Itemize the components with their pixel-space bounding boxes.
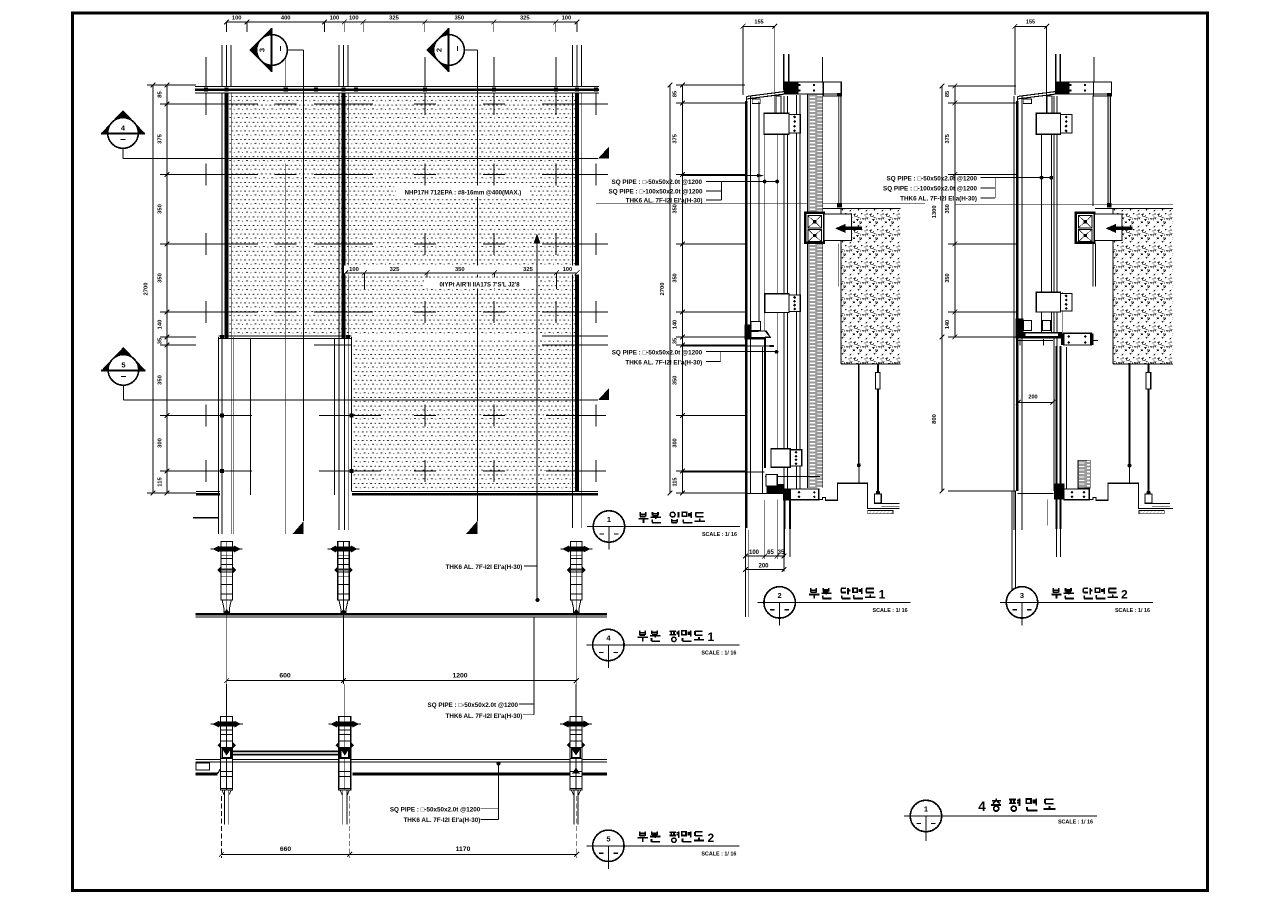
svg-text:800: 800 xyxy=(932,414,938,424)
svg-text:325: 325 xyxy=(520,16,530,22)
section1 outer dim 2700 xyxy=(669,85,671,493)
plan2 mullion at x=344.8 xyxy=(344,684,346,717)
title section1 bubble 2 xyxy=(764,587,795,618)
section2 dim chain xyxy=(954,86,956,337)
plan1 title bubble 4 xyxy=(593,629,624,660)
section2 top coping xyxy=(1017,91,1057,96)
svg-text:SCALE : 1/ 16: SCALE : 1/ 16 xyxy=(702,532,737,538)
section2 floor level line xyxy=(955,203,1173,205)
svg-text:400: 400 xyxy=(281,16,291,22)
svg-text:85: 85 xyxy=(945,91,951,97)
plan1 dimension line xyxy=(227,680,577,682)
cut plane line 5 xyxy=(123,399,598,401)
elevation opening interior vertical xyxy=(285,164,287,535)
section2 hanger neck xyxy=(1047,96,1052,114)
svg-text:350: 350 xyxy=(158,204,164,214)
svg-text:2700: 2700 xyxy=(144,283,150,296)
section2 bottom sill assembly xyxy=(1054,484,1065,500)
svg-text:SCALE : 1/ 16: SCALE : 1/ 16 xyxy=(701,851,736,857)
svg-text:100: 100 xyxy=(349,267,359,273)
svg-text:SQ PIPE : □-50x50x2.0t @1200: SQ PIPE : □-50x50x2.0t @1200 xyxy=(612,350,703,357)
plan2 notes leader xyxy=(498,764,500,820)
svg-text:140: 140 xyxy=(673,320,679,329)
section1 ceiling hatch strip xyxy=(868,510,893,513)
elevation horizontal joint lines xyxy=(195,103,258,105)
svg-text:140: 140 xyxy=(158,320,164,330)
section1 mid note leaders xyxy=(706,351,777,353)
plan2 mullion black tube block at x=226.6 xyxy=(221,748,231,759)
svg-text:1: 1 xyxy=(707,630,714,644)
section2 wall verticals xyxy=(1013,96,1015,530)
svg-text:4: 4 xyxy=(978,799,986,814)
svg-text:SQ PIPE : □-50x50x2.0t @1200: SQ PIPE : □-50x50x2.0t @1200 xyxy=(612,179,703,186)
elevation opening head lines xyxy=(219,335,352,337)
title section2 bubble 3 xyxy=(1006,587,1037,618)
elevation mullion M1 xyxy=(224,93,228,338)
section2 below-floor stubs xyxy=(1047,500,1049,526)
section1 bottom dim 200 xyxy=(746,569,785,571)
plan1 mullion at x=343.5 xyxy=(343,542,345,621)
section1 bottom dims 100-65-35 xyxy=(764,500,766,559)
section2 floor step profile xyxy=(1089,483,1173,508)
elevation top dimension line xyxy=(226,21,577,23)
svg-text:THK6 AL. 7F-I2I EI'a(H-30): THK6 AL. 7F-I2I EI'a(H-30) xyxy=(446,713,523,720)
section1 top coping xyxy=(746,91,786,96)
section2 sill bracket xyxy=(1064,333,1092,345)
section1 tube assembly top xyxy=(764,113,789,134)
svg-text:85: 85 xyxy=(673,91,679,97)
section1 anchor arrow xyxy=(845,227,862,231)
elevation bottom band xyxy=(196,491,220,493)
elevation note anchor fix with halo xyxy=(424,278,536,289)
elevation node dots xyxy=(204,88,208,92)
section2 tube assembly top xyxy=(1036,113,1060,134)
svg-text:350: 350 xyxy=(158,273,164,283)
svg-text:SQ PIPE : □-50x50x2.0t @1200: SQ PIPE : □-50x50x2.0t @1200 xyxy=(390,807,481,814)
svg-text:0IYPt AIR'II IIA17S 7'S'L J2'8: 0IYPt AIR'II IIA17S 7'S'L J2'8 xyxy=(439,283,520,289)
svg-text:325: 325 xyxy=(523,267,533,273)
detail marker 4 at left xyxy=(101,110,145,134)
section1 slab-above glass pair xyxy=(783,54,785,91)
svg-text:1170: 1170 xyxy=(456,846,471,853)
svg-text:350: 350 xyxy=(454,16,464,22)
svg-text:SQ PIPE : □-100x50x2.0t @1200: SQ PIPE : □-100x50x2.0t @1200 xyxy=(883,186,977,193)
svg-text:2: 2 xyxy=(707,831,714,845)
svg-text:2700: 2700 xyxy=(660,283,666,296)
svg-text:200: 200 xyxy=(1028,395,1037,401)
svg-text:SCALE : 1/ 16: SCALE : 1/ 16 xyxy=(1115,608,1150,614)
section1 tube assembly mid xyxy=(765,294,789,313)
svg-text:1200: 1200 xyxy=(452,673,467,680)
elevation top band xyxy=(195,86,599,88)
section1 level line at 175 xyxy=(683,175,757,177)
section2 sill bar xyxy=(1016,319,1024,339)
svg-text:155: 155 xyxy=(754,20,763,26)
svg-text:SQ PIPE : □-50x50x2.0t @1200: SQ PIPE : □-50x50x2.0t @1200 xyxy=(428,702,519,709)
elevation left stub line xyxy=(193,517,219,519)
svg-text:350: 350 xyxy=(945,204,951,213)
section1 zipper stone band xyxy=(807,94,822,489)
section1 sill step xyxy=(745,324,752,337)
section1 ceiling lines xyxy=(881,502,899,504)
svg-text:200: 200 xyxy=(758,563,769,569)
svg-text:SCALE : 1/ 16: SCALE : 1/ 16 xyxy=(1058,820,1093,826)
elevation left outer dimension line 2700 xyxy=(152,85,154,493)
section2 hanger rod A xyxy=(1129,364,1131,466)
section2 tube assembly mid xyxy=(1036,292,1060,312)
section2 glass strip above slab xyxy=(1108,96,1111,206)
svg-text:300: 300 xyxy=(673,438,679,447)
svg-text:THK6 AL. 7F-I2I EI'a(H-30): THK6 AL. 7F-I2I EI'a(H-30) xyxy=(446,564,523,571)
section1 top dim 155 xyxy=(743,25,775,27)
section1 below-floor stubs xyxy=(776,500,778,526)
detail marker 5 at left xyxy=(101,347,145,370)
svg-text:5: 5 xyxy=(121,360,125,369)
svg-text:1: 1 xyxy=(924,805,928,814)
svg-text:325: 325 xyxy=(390,267,400,273)
svg-text:2: 2 xyxy=(1121,587,1128,601)
section2 slab anchor box xyxy=(1076,213,1095,243)
plan1 mullion at x=576.3 xyxy=(575,542,577,621)
section2 outer dim lines xyxy=(941,86,943,491)
section cut line 3 xyxy=(303,50,305,521)
plan1 notes leader xyxy=(533,617,535,715)
section1 floor level line xyxy=(596,203,925,205)
svg-text:350: 350 xyxy=(673,376,679,385)
elevation left dimension chain xyxy=(166,85,168,493)
plan2 left wall end cap xyxy=(196,763,210,770)
svg-text:100: 100 xyxy=(563,267,573,273)
section2 bottom tube xyxy=(1064,489,1089,500)
section1 bottom sill assembly xyxy=(683,471,765,473)
section2 hanger rod B xyxy=(1148,364,1150,373)
section1 hanger rod A xyxy=(858,364,860,465)
section1 outer pair above concrete xyxy=(838,96,841,207)
elevation lower joint lines xyxy=(195,415,252,417)
section1 concrete slab xyxy=(841,209,901,364)
elevation mullion M3 xyxy=(575,93,579,492)
section1 hanger neck xyxy=(776,96,781,114)
svg-text:THK6 AL. 7F-I2I EI'a(H-30): THK6 AL. 7F-I2I EI'a(H-30) xyxy=(900,196,977,203)
svg-text:350: 350 xyxy=(455,267,465,273)
svg-text:SQ PIPE : □-50x50x2.0t @1200: SQ PIPE : □-50x50x2.0t @1200 xyxy=(887,176,978,183)
section marker 2 at top xyxy=(427,28,449,72)
svg-text:2: 2 xyxy=(778,591,782,600)
elevation leader to AL panel note xyxy=(536,240,538,600)
section2 anchor plate xyxy=(1095,214,1123,241)
plan2 mullion at x=226.6 xyxy=(226,684,228,717)
plan2 dimension line xyxy=(221,853,576,855)
svg-text:SCALE : 1/ 16: SCALE : 1/ 16 xyxy=(873,608,908,614)
svg-text:155: 155 xyxy=(1026,20,1035,26)
section2 coil strip xyxy=(1078,460,1090,488)
section1 dim chain xyxy=(682,85,684,493)
plan1 wall line xyxy=(196,613,607,615)
svg-text:THK6 AL. 7F-I2I EI'a(H-30): THK6 AL. 7F-I2I EI'a(H-30) xyxy=(626,197,703,204)
svg-text:100: 100 xyxy=(349,16,359,22)
elevation verticals above top band xyxy=(221,45,223,87)
section1 upper note leaders xyxy=(706,181,777,183)
section cut line 2 xyxy=(476,50,478,521)
svg-text:1: 1 xyxy=(879,587,886,601)
section1 tube assembly low xyxy=(771,449,790,468)
elevation mullion edge lines xyxy=(221,93,223,534)
svg-text:SCALE : 1/ 16: SCALE : 1/ 16 xyxy=(701,651,736,657)
section2 dim 200 xyxy=(1018,401,1052,403)
cut plane line 4 xyxy=(123,158,598,160)
section2 top cap plate xyxy=(1093,82,1111,96)
svg-text:115: 115 xyxy=(158,477,164,487)
svg-text:375: 375 xyxy=(158,133,164,143)
plan2 title bubble 5 xyxy=(593,830,624,861)
svg-text:325: 325 xyxy=(389,16,399,22)
svg-text:300: 300 xyxy=(158,438,164,448)
svg-text:350: 350 xyxy=(158,375,164,385)
elevation mullion M2 xyxy=(341,93,345,338)
plan2 mullion black tube block at x=576 xyxy=(571,748,581,759)
title elevation bubble 1 xyxy=(593,511,624,542)
section1 wall verticals xyxy=(745,101,747,528)
plan2 mullion at x=576 xyxy=(575,684,577,717)
svg-text:5: 5 xyxy=(606,834,610,843)
svg-text:35: 35 xyxy=(673,338,679,344)
section2 ceiling lines xyxy=(1152,502,1170,504)
section1 top anchor bar xyxy=(787,82,841,94)
svg-text:1: 1 xyxy=(607,515,611,524)
svg-text:100: 100 xyxy=(562,16,572,22)
elevation note glass spec with halo xyxy=(396,186,530,198)
svg-text:100: 100 xyxy=(749,550,760,556)
section2 top anchor bar xyxy=(1058,82,1112,94)
section2 outer pair above concrete xyxy=(1092,96,1094,207)
svg-text:2: 2 xyxy=(435,48,444,52)
section2 top dim 155 xyxy=(1015,25,1047,27)
svg-text:375: 375 xyxy=(673,134,679,143)
elevation grid cross dashes xyxy=(275,103,297,105)
section1 slab anchor box xyxy=(805,213,824,243)
svg-text:100: 100 xyxy=(330,16,340,22)
svg-text:100: 100 xyxy=(232,16,242,22)
section2 anchor arrow xyxy=(1116,227,1133,231)
plan2 beam between mullions xyxy=(232,750,339,752)
svg-text:35: 35 xyxy=(778,550,785,556)
elevation stipple panel upper xyxy=(229,94,575,336)
section2 concrete slab xyxy=(1113,209,1173,364)
svg-text:65: 65 xyxy=(767,550,774,556)
elevation grid tick dashes xyxy=(205,93,207,115)
svg-text:660: 660 xyxy=(280,846,292,853)
section1 floor step profile xyxy=(819,483,900,508)
section1 anchor plate xyxy=(824,214,852,241)
section1 top cap plate xyxy=(823,82,841,96)
svg-text:350: 350 xyxy=(673,204,679,213)
plan1 mullion at x=226.7 xyxy=(226,542,228,621)
section1 bottom tube xyxy=(784,489,819,500)
section1 hanger rod B xyxy=(877,364,879,373)
svg-text:350: 350 xyxy=(673,273,679,282)
svg-text:SQ PIPE : □-100x50x2.0t @1200: SQ PIPE : □-100x50x2.0t @1200 xyxy=(609,188,703,195)
svg-text:THK6 AL. 7F-I2I EI'a(H-30): THK6 AL. 7F-I2I EI'a(H-30) xyxy=(625,360,702,367)
plan2 glass thick line xyxy=(353,772,607,775)
elevation opening jamb lines xyxy=(218,337,220,534)
elevation stipple panel lower-right xyxy=(354,340,575,491)
section2 ceiling hatch strip xyxy=(1139,510,1164,513)
svg-text:85: 85 xyxy=(158,91,164,98)
svg-text:35: 35 xyxy=(158,337,164,344)
svg-text:1300: 1300 xyxy=(932,205,938,218)
svg-text:350: 350 xyxy=(945,273,951,282)
section2 upper note leaders xyxy=(981,177,1053,179)
svg-text:140: 140 xyxy=(945,320,951,329)
svg-text:3: 3 xyxy=(258,48,267,52)
svg-text:600: 600 xyxy=(279,673,291,680)
title 4F plan bubble xyxy=(910,800,941,831)
plan2 wall thin lines xyxy=(196,758,607,760)
svg-text:115: 115 xyxy=(673,477,679,486)
svg-text:THK6 AL. 7F-I2I EI'a(H-30): THK6 AL. 7F-I2I EI'a(H-30) xyxy=(403,817,480,824)
section2 slab-above glass pair xyxy=(1055,54,1057,91)
section marker 3 at top xyxy=(250,28,272,72)
svg-text:NHP17H 712EPA : #8-16mm @400(M: NHP17H 712EPA : #8-16mm @400(MAX.) xyxy=(405,190,522,197)
plan2 mullion black tube block at x=344.8 xyxy=(340,748,350,759)
svg-text:375: 375 xyxy=(945,134,951,143)
svg-text:3: 3 xyxy=(1020,591,1024,600)
elevation interior dimension row xyxy=(344,266,580,275)
